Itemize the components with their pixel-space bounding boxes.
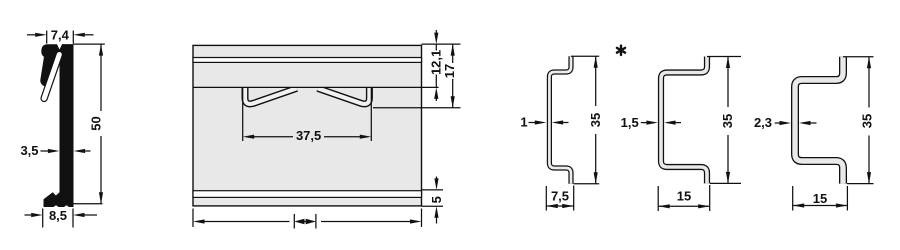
profile 3 dimension 15 line [793,205,848,207]
side view: slot white core [44,55,59,99]
svg-text:1: 1 [520,115,527,130]
bottom dimension break double arrow [303,221,308,223]
profile 3 contour [795,57,843,184]
front view: plate [193,45,422,206]
bottom overall dimension extension lines [192,209,194,228]
profile 1 contour [549,56,571,184]
profile 3 dimension 15 extension lines [792,186,794,211]
dimension 17 line [452,44,454,63]
svg-text:1,5: 1,5 [621,115,639,130]
front view: top reference line extension [422,43,461,45]
side view: foot notch right [64,206,68,210]
profile 2 dimension 35 line [727,57,729,108]
front view: hook bottom reference line (17) [373,107,461,109]
side view: clip arm [46,57,50,81]
svg-text:7,5: 7,5 [551,189,569,204]
svg-text:2,3: 2,3 [754,115,772,130]
dimension 5 arrows [434,178,438,190]
side view: foot notch left [54,206,58,210]
profile 3 dimension 35 line [868,57,870,108]
profile 2 dimension 35 extension lines [707,56,741,58]
asterisk footnote [617,46,625,55]
dimension 37,5 extension lines [242,88,244,141]
profile 3 dimension 35 extension lines [843,56,874,58]
bottom dimension break ticks [293,214,295,229]
svg-text:7,4: 7,4 [51,28,70,43]
dimension 8,5 arrows [25,214,32,216]
svg-text:17: 17 [442,64,457,78]
side view: rail body (vertical bar + serrated foot) [44,44,74,207]
dimension 50 line [100,44,102,111]
svg-text:8,5: 8,5 [49,208,67,223]
profile 2 dimension 15 extension lines [657,186,659,211]
svg-text:15: 15 [813,191,827,206]
dimension 37,5 line and arrows [254,136,293,138]
dimension 7,4 arrows [27,34,35,36]
dimension 8,5 extension lines [42,209,44,228]
dimension 7,4 extension lines [46,31,48,44]
side view: top notch [57,44,62,50]
profile 1 dimension 7,5 extension lines [545,186,547,211]
dimension 5 extension lines [422,189,444,191]
dimension 12,1 line [435,44,437,50]
svg-text:35: 35 [860,114,875,128]
profile 1 dimension 7,5 line [546,205,573,207]
svg-text:3,5: 3,5 [20,143,38,158]
profile 2 dimension 15 line [658,205,710,207]
dimension 50 reference lines [74,43,105,45]
bottom overall dimension line with arrows [204,221,289,223]
front view: right spring hook [318,86,370,104]
svg-text:35: 35 [588,113,603,127]
svg-text:15: 15 [677,189,691,204]
svg-text:50: 50 [89,116,104,130]
front view: top groove [193,58,422,63]
front view: left spring hook [245,86,297,104]
side view: slot outline [44,55,59,99]
svg-text:35: 35 [720,114,735,128]
svg-text:5: 5 [429,196,444,203]
front view: bottom groove [193,191,422,198]
profile 2 contour [661,57,707,184]
svg-text:37,5: 37,5 [296,128,321,143]
profile 1 dimension 35 extension lines [571,55,599,57]
side view: top hook blob [41,44,73,58]
profile 1 dimension 35 line [595,56,597,106]
